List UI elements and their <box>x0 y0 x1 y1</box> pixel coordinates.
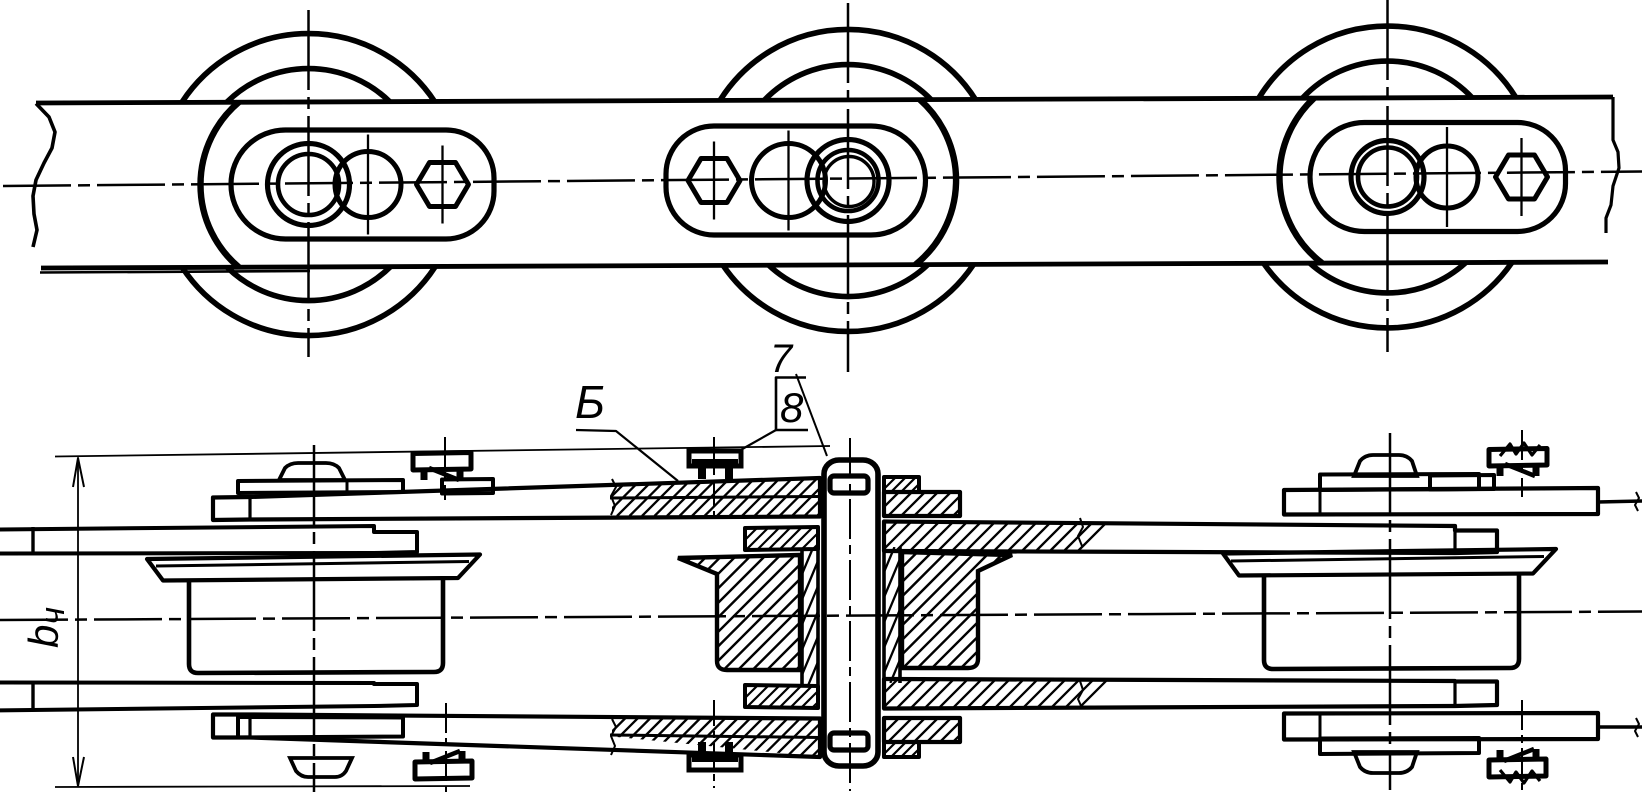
dimension b4 bottom arrowhead <box>73 757 84 786</box>
label Б leader line <box>576 430 678 481</box>
clamp bolt centreline lower <box>713 700 715 788</box>
roller 3 pin bush inner circle <box>1358 148 1417 207</box>
chain strap bottom edge <box>41 262 1608 268</box>
dimension b4 bottom extension line <box>55 786 470 787</box>
right flange top inner line <box>1231 557 1544 562</box>
bottom view horizontal centreline <box>0 612 1642 621</box>
left upper inner plate (at pin) <box>745 527 818 550</box>
right bolt vertical centreline lower <box>1521 700 1523 790</box>
clamp bolt legs upper <box>698 466 706 479</box>
right roller cylinder <box>1264 574 1519 669</box>
left castle nut cotter pin <box>429 468 459 480</box>
left roller cylinder <box>189 578 443 673</box>
roller 3 hexagon bolt head <box>1496 155 1548 199</box>
left lower castle nut cotter pin <box>430 751 460 763</box>
top view horizontal centreline <box>3 172 1642 187</box>
section break line left lower <box>611 719 616 755</box>
left lower plates divider line <box>610 735 820 738</box>
roller 2 inner flange circle upper arc <box>765 65 932 100</box>
right lower strip end break <box>1635 718 1639 737</box>
chain strap top edge <box>36 97 1613 103</box>
roller 2 vertical centreline <box>847 3 850 372</box>
right lower strip continuation <box>1598 725 1642 728</box>
roller 1 bushing vertical centreline <box>367 135 369 235</box>
right castle nut cotter crown <box>1500 443 1540 456</box>
left roller pin head dome <box>279 463 345 480</box>
right bushing tube <box>882 547 886 683</box>
roller flange top inner line (left) <box>156 562 469 567</box>
roller 3 link plate outline <box>1310 122 1566 231</box>
right upper long plate boss line <box>1453 526 1456 553</box>
roller 2 outer flange circle lower arc <box>723 265 973 332</box>
right lower castle nut cotter crown <box>1500 770 1540 783</box>
left upper outer plate strip <box>213 478 820 520</box>
left roller nut washer bar <box>238 480 403 493</box>
roller flange (left, top) <box>147 555 480 581</box>
right lower outer plate (at pin) <box>884 718 960 742</box>
roller 3 bushing vertical centreline <box>1446 127 1448 227</box>
right lower pin head dome <box>1354 752 1417 773</box>
right upper long plate section break <box>1078 518 1083 546</box>
roller 2 inner flange circle lower arc <box>768 265 927 297</box>
right castle nut cotter pin <box>1505 464 1535 476</box>
left break line <box>33 104 55 248</box>
right lower pin washer <box>884 742 919 757</box>
roller 2 pin bush inner circle <box>818 150 879 211</box>
left upper inner plate strip <box>0 526 417 554</box>
right upper pin washer <box>884 477 919 492</box>
roller 1 link plate outline <box>231 130 494 239</box>
roller 1 bolt vertical centreline <box>441 146 443 224</box>
dimension b4 top extension line <box>55 446 830 457</box>
dimension b4 line <box>77 458 79 786</box>
right lower long plate section break <box>1078 681 1083 708</box>
chain joint pin <box>824 460 878 766</box>
pin lower hole <box>830 733 868 750</box>
left bolt vertical centreline lower <box>445 703 447 792</box>
clamp bolt legs lower <box>698 742 706 755</box>
left roller vertical centreline <box>313 445 316 792</box>
right lower long plate <box>884 679 1497 709</box>
right bolt vertical centreline upper <box>1521 430 1523 497</box>
pin vertical centreline <box>849 438 851 791</box>
roller 2 bushing vertical centreline <box>787 131 789 231</box>
roller 3 inner flange circle lower arc <box>1310 263 1466 293</box>
right castle nut body <box>1489 449 1547 467</box>
left castle nut body <box>413 453 471 471</box>
right roller vertical centreline <box>1389 433 1392 790</box>
roller 2 pin bush outer circle <box>807 140 889 222</box>
roller 1 outer flange circle lower arc <box>182 267 435 336</box>
svg-text:8: 8 <box>780 384 804 431</box>
chain strap bottom edge inner line <box>40 271 310 273</box>
pin upper hole <box>830 476 868 493</box>
dimension b4 top arrowhead <box>73 458 84 487</box>
left lower castle nut legs <box>423 752 430 762</box>
left lower nut washer bar <box>238 717 403 738</box>
roller 1 inner flange circle lower arc <box>227 267 390 301</box>
roller 1 inner flange circle upper arc <box>227 69 390 102</box>
section break line left <box>611 479 616 515</box>
roller 2 pin bore circle <box>824 157 874 207</box>
svg-text:Б: Б <box>575 376 605 428</box>
left nut washer bar divider <box>346 481 349 493</box>
right break line <box>1606 97 1619 233</box>
right upper outer plate (at pin) <box>884 492 960 516</box>
left upper inner plate break <box>31 527 34 554</box>
roller 1 hexagon bolt head <box>417 163 469 207</box>
right upper outer plate overlap <box>1284 488 1598 515</box>
roller 2 hub arc inside strap <box>915 100 956 265</box>
roller 2 bolt vertical centreline <box>713 142 715 220</box>
roller 2 outer flange circle upper arc <box>720 29 975 99</box>
right upper strip continuation <box>1598 501 1642 502</box>
roller 1 pin bush outer circle <box>268 144 350 226</box>
roller 1 outer flange circle upper arc <box>182 34 435 102</box>
roller 3 vertical centreline <box>1386 0 1389 352</box>
left bushing tube <box>800 549 804 685</box>
left bolt vertical centreline upper <box>444 437 446 500</box>
roller 2 link plate outline <box>666 126 926 235</box>
left castle nut washer <box>442 479 493 494</box>
right upper long plate <box>884 522 1497 554</box>
left lower inner plate (at pin) <box>745 685 818 708</box>
right flange (top) <box>1223 549 1556 576</box>
clamp bolt centreline upper <box>713 437 715 522</box>
right roller hub section <box>902 552 1012 668</box>
roller 3 outer flange circle lower arc <box>1263 263 1511 328</box>
roller 1 hub arc inside strap <box>200 102 238 267</box>
left roller hub section <box>678 555 800 670</box>
right castle nut slots <box>1496 454 1540 462</box>
roller 3 hub arc inside strap <box>1280 98 1322 263</box>
roller 3 inner flange circle upper arc <box>1303 61 1473 98</box>
right castle nut legs <box>1497 466 1504 476</box>
roller 3 bushing circle <box>1416 146 1478 208</box>
left castle nut legs <box>421 470 428 480</box>
left lower castle nut body <box>415 761 472 779</box>
right lower long plate boss line <box>1453 681 1456 706</box>
left lower pin head dome <box>290 758 352 777</box>
right lower outer plate overlap <box>1284 713 1598 740</box>
roller 3 bolt vertical centreline <box>1520 138 1522 216</box>
left castle nut slots <box>420 458 464 466</box>
clamp bolt head (item 8) upper <box>689 451 741 466</box>
roller 3 pin bush outer circle <box>1351 141 1424 214</box>
left upper outer plate end cap line <box>248 497 251 520</box>
right lower castle nut legs <box>1497 750 1504 760</box>
right upper outer plate inner line <box>1319 490 1322 514</box>
clamp bolt head (item 8) lower <box>689 755 741 770</box>
label 8 box <box>776 378 808 431</box>
label 8 leader line <box>737 430 776 452</box>
right lower castle nut cotter pin <box>1504 749 1534 761</box>
left lower inner plate strip <box>0 683 417 711</box>
right lower outer plate inner line <box>1319 714 1322 739</box>
roller 3 outer flange circle upper arc <box>1259 26 1516 98</box>
roller 2 hexagon bolt head <box>688 159 740 203</box>
left lower outer plate strip <box>213 715 820 758</box>
left lower castle nut slots <box>422 766 466 774</box>
right roller pin head dome <box>1354 455 1417 476</box>
left upper plates divider line <box>610 497 820 499</box>
svg-text:7: 7 <box>770 337 794 381</box>
left lower outer plate end cap line <box>248 715 251 738</box>
roller 2 bushing circle <box>752 144 826 218</box>
label 7 leader line <box>796 374 827 456</box>
right lower castle nut body <box>1489 759 1546 777</box>
right upper strip end break <box>1635 492 1639 511</box>
roller 1 pin bush inner circle <box>278 154 339 215</box>
right castle nut washer <box>1430 475 1494 490</box>
roller 1 vertical centreline <box>307 10 310 357</box>
left lower inner plate break <box>31 683 34 711</box>
right lower nut washer bar <box>1320 738 1479 754</box>
right roller nut washer bar <box>1320 474 1479 490</box>
right lower castle nut slots <box>1496 764 1540 772</box>
roller 1 bushing circle <box>335 152 401 218</box>
